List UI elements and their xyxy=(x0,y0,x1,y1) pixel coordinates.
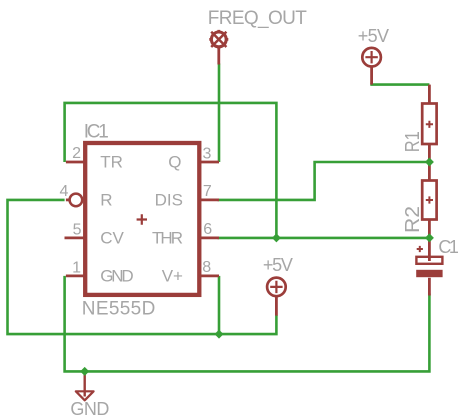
svg-text:GND: GND xyxy=(100,266,134,285)
pin 2 TR stub xyxy=(66,161,85,164)
supply +5V symbol top right xyxy=(362,48,381,85)
svg-text:6: 6 xyxy=(203,221,212,238)
svg-text:2: 2 xyxy=(72,145,81,162)
pin 6 THR stub xyxy=(199,236,219,239)
pad FREQ_OUT symbol xyxy=(209,30,228,65)
svg-text:R2: R2 xyxy=(402,206,424,233)
op IC1 NE555D body xyxy=(85,143,199,295)
IC1 center + mark xyxy=(137,214,147,224)
pin 4 R stub xyxy=(66,198,70,201)
svg-text:8: 8 xyxy=(202,259,211,276)
svg-text:GND: GND xyxy=(70,399,109,418)
junction TR/THR xyxy=(272,233,281,242)
supply +5V symbol near pin 8 xyxy=(267,278,286,316)
net +5V wire: top right, supply to R1 xyxy=(372,83,430,85)
svg-text:FREQ_OUT: FREQ_OUT xyxy=(208,8,307,29)
svg-text:4: 4 xyxy=(59,183,68,200)
net TR/THR wire: pin2 left loop top xyxy=(65,103,277,238)
svg-text:+5V: +5V xyxy=(358,26,389,46)
svg-text:IC1: IC1 xyxy=(84,121,109,142)
svg-text:TR: TR xyxy=(100,153,123,172)
net THR wire: pin6 to R2/C1 junction xyxy=(218,237,430,240)
svg-text:5: 5 xyxy=(73,221,82,238)
net GND wire: pin1 down and bottom rail xyxy=(65,276,430,372)
svg-text:C1: C1 xyxy=(438,237,459,257)
pin 8 V+ stub xyxy=(199,274,219,277)
junction V+ rail xyxy=(215,330,224,339)
pin 1 GND stub xyxy=(66,274,85,277)
svg-text:+5V: +5V xyxy=(263,255,293,275)
net FREQ_OUT wire: pad to pin3 xyxy=(218,64,221,163)
pin 3 Q stub xyxy=(199,161,219,164)
svg-text:Q: Q xyxy=(168,153,181,172)
net +5V wire: bottom rail to pin4 loop xyxy=(8,200,277,334)
junction GND rail xyxy=(80,367,89,376)
junction R2/C1/THR xyxy=(425,233,434,242)
svg-text:R: R xyxy=(100,190,112,209)
pin 7 DIS stub xyxy=(199,198,219,201)
ground GND symbol xyxy=(76,373,94,400)
svg-text:CV: CV xyxy=(100,228,124,247)
svg-text:DIS: DIS xyxy=(155,190,183,209)
net DIS wire: pin7 to R1/R2 junction xyxy=(218,162,430,200)
svg-text:V+: V+ xyxy=(162,266,183,285)
svg-text:1: 1 xyxy=(72,259,81,276)
pin 4 inversion bubble xyxy=(70,194,83,207)
resistor R2 xyxy=(422,162,436,238)
svg-text:THR: THR xyxy=(152,228,183,247)
svg-text:NE555D: NE555D xyxy=(82,298,156,319)
svg-text:3: 3 xyxy=(203,146,212,163)
capacitor C1 polarized xyxy=(416,238,442,296)
svg-text:R1: R1 xyxy=(402,131,424,152)
pin 5 CV stub xyxy=(65,236,86,239)
junction R1/R2/DIS xyxy=(425,158,434,167)
resistor R1 xyxy=(422,85,436,162)
net +5V wire: pin8 and reset rail xyxy=(218,276,221,334)
svg-text:7: 7 xyxy=(203,183,212,200)
